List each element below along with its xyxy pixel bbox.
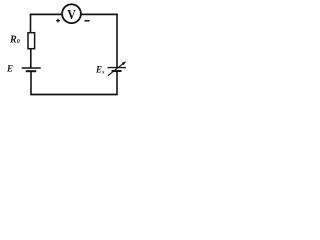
wire right upper segment [116, 14, 118, 68]
voltmeter U1 (circle) [62, 4, 81, 23]
battery E (long plate) [22, 67, 41, 69]
polarity plus sign [56, 19, 60, 23]
svg-text:s: s [101, 70, 104, 76]
wire bottom segment [30, 94, 118, 96]
svg-text:E: E [6, 64, 13, 74]
wire top-right segment [81, 13, 118, 15]
wire left lower segment (battery to bottom) [30, 72, 32, 96]
polarity minus sign [85, 20, 90, 22]
svg-text:R: R [9, 34, 17, 45]
wire left upper segment [30, 14, 32, 33]
svg-text:V: V [67, 8, 76, 23]
wire left middle segment (resistor to battery) [30, 49, 32, 69]
battery E (short thick plate) [26, 70, 37, 72]
svg-text:0: 0 [17, 39, 20, 45]
wire right lower segment [116, 71, 118, 95]
standard cell Es (variable arrow) [108, 61, 126, 75]
wire top-left segment [30, 13, 62, 15]
resistor R0 (box) [28, 33, 35, 49]
standard cell Es (short thick plate) [112, 70, 122, 72]
svg-text:E: E [95, 64, 102, 74]
standard cell Es (long plate) [108, 67, 126, 69]
